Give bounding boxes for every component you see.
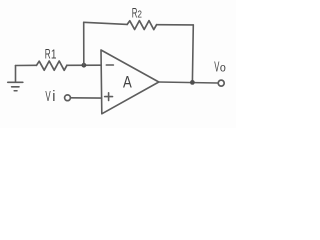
wire Vi to plus input <box>71 97 102 99</box>
node junction at minus input <box>82 63 87 68</box>
resistor R1 <box>37 61 67 70</box>
svg-text:V: V <box>214 59 219 75</box>
wire feedback left vertical <box>83 22 85 65</box>
svg-text:i: i <box>52 89 55 105</box>
minus sign on inverting input <box>106 64 113 66</box>
svg-text:o: o <box>220 62 226 75</box>
wire R1 to op-amp minus input <box>67 64 101 66</box>
node junction at output <box>190 80 195 85</box>
input terminal Vi circle <box>65 95 71 101</box>
svg-text:2: 2 <box>137 9 142 20</box>
plus sign on non-inverting input <box>105 93 113 101</box>
ground <box>8 66 23 91</box>
op-amp U1 triangle <box>101 50 159 114</box>
svg-text:R: R <box>45 47 51 62</box>
wire op-amp output <box>159 82 218 83</box>
output terminal Vo circle <box>218 80 224 86</box>
wire ground to R1 <box>16 64 37 66</box>
svg-text:A: A <box>123 74 132 92</box>
wire feedback right vertical <box>191 25 194 82</box>
wire R2 to top right corner <box>157 24 194 26</box>
resistor R2 <box>127 21 156 30</box>
svg-text:V: V <box>45 89 50 105</box>
svg-text:1: 1 <box>51 47 57 61</box>
wire top left to R2 <box>84 22 128 24</box>
